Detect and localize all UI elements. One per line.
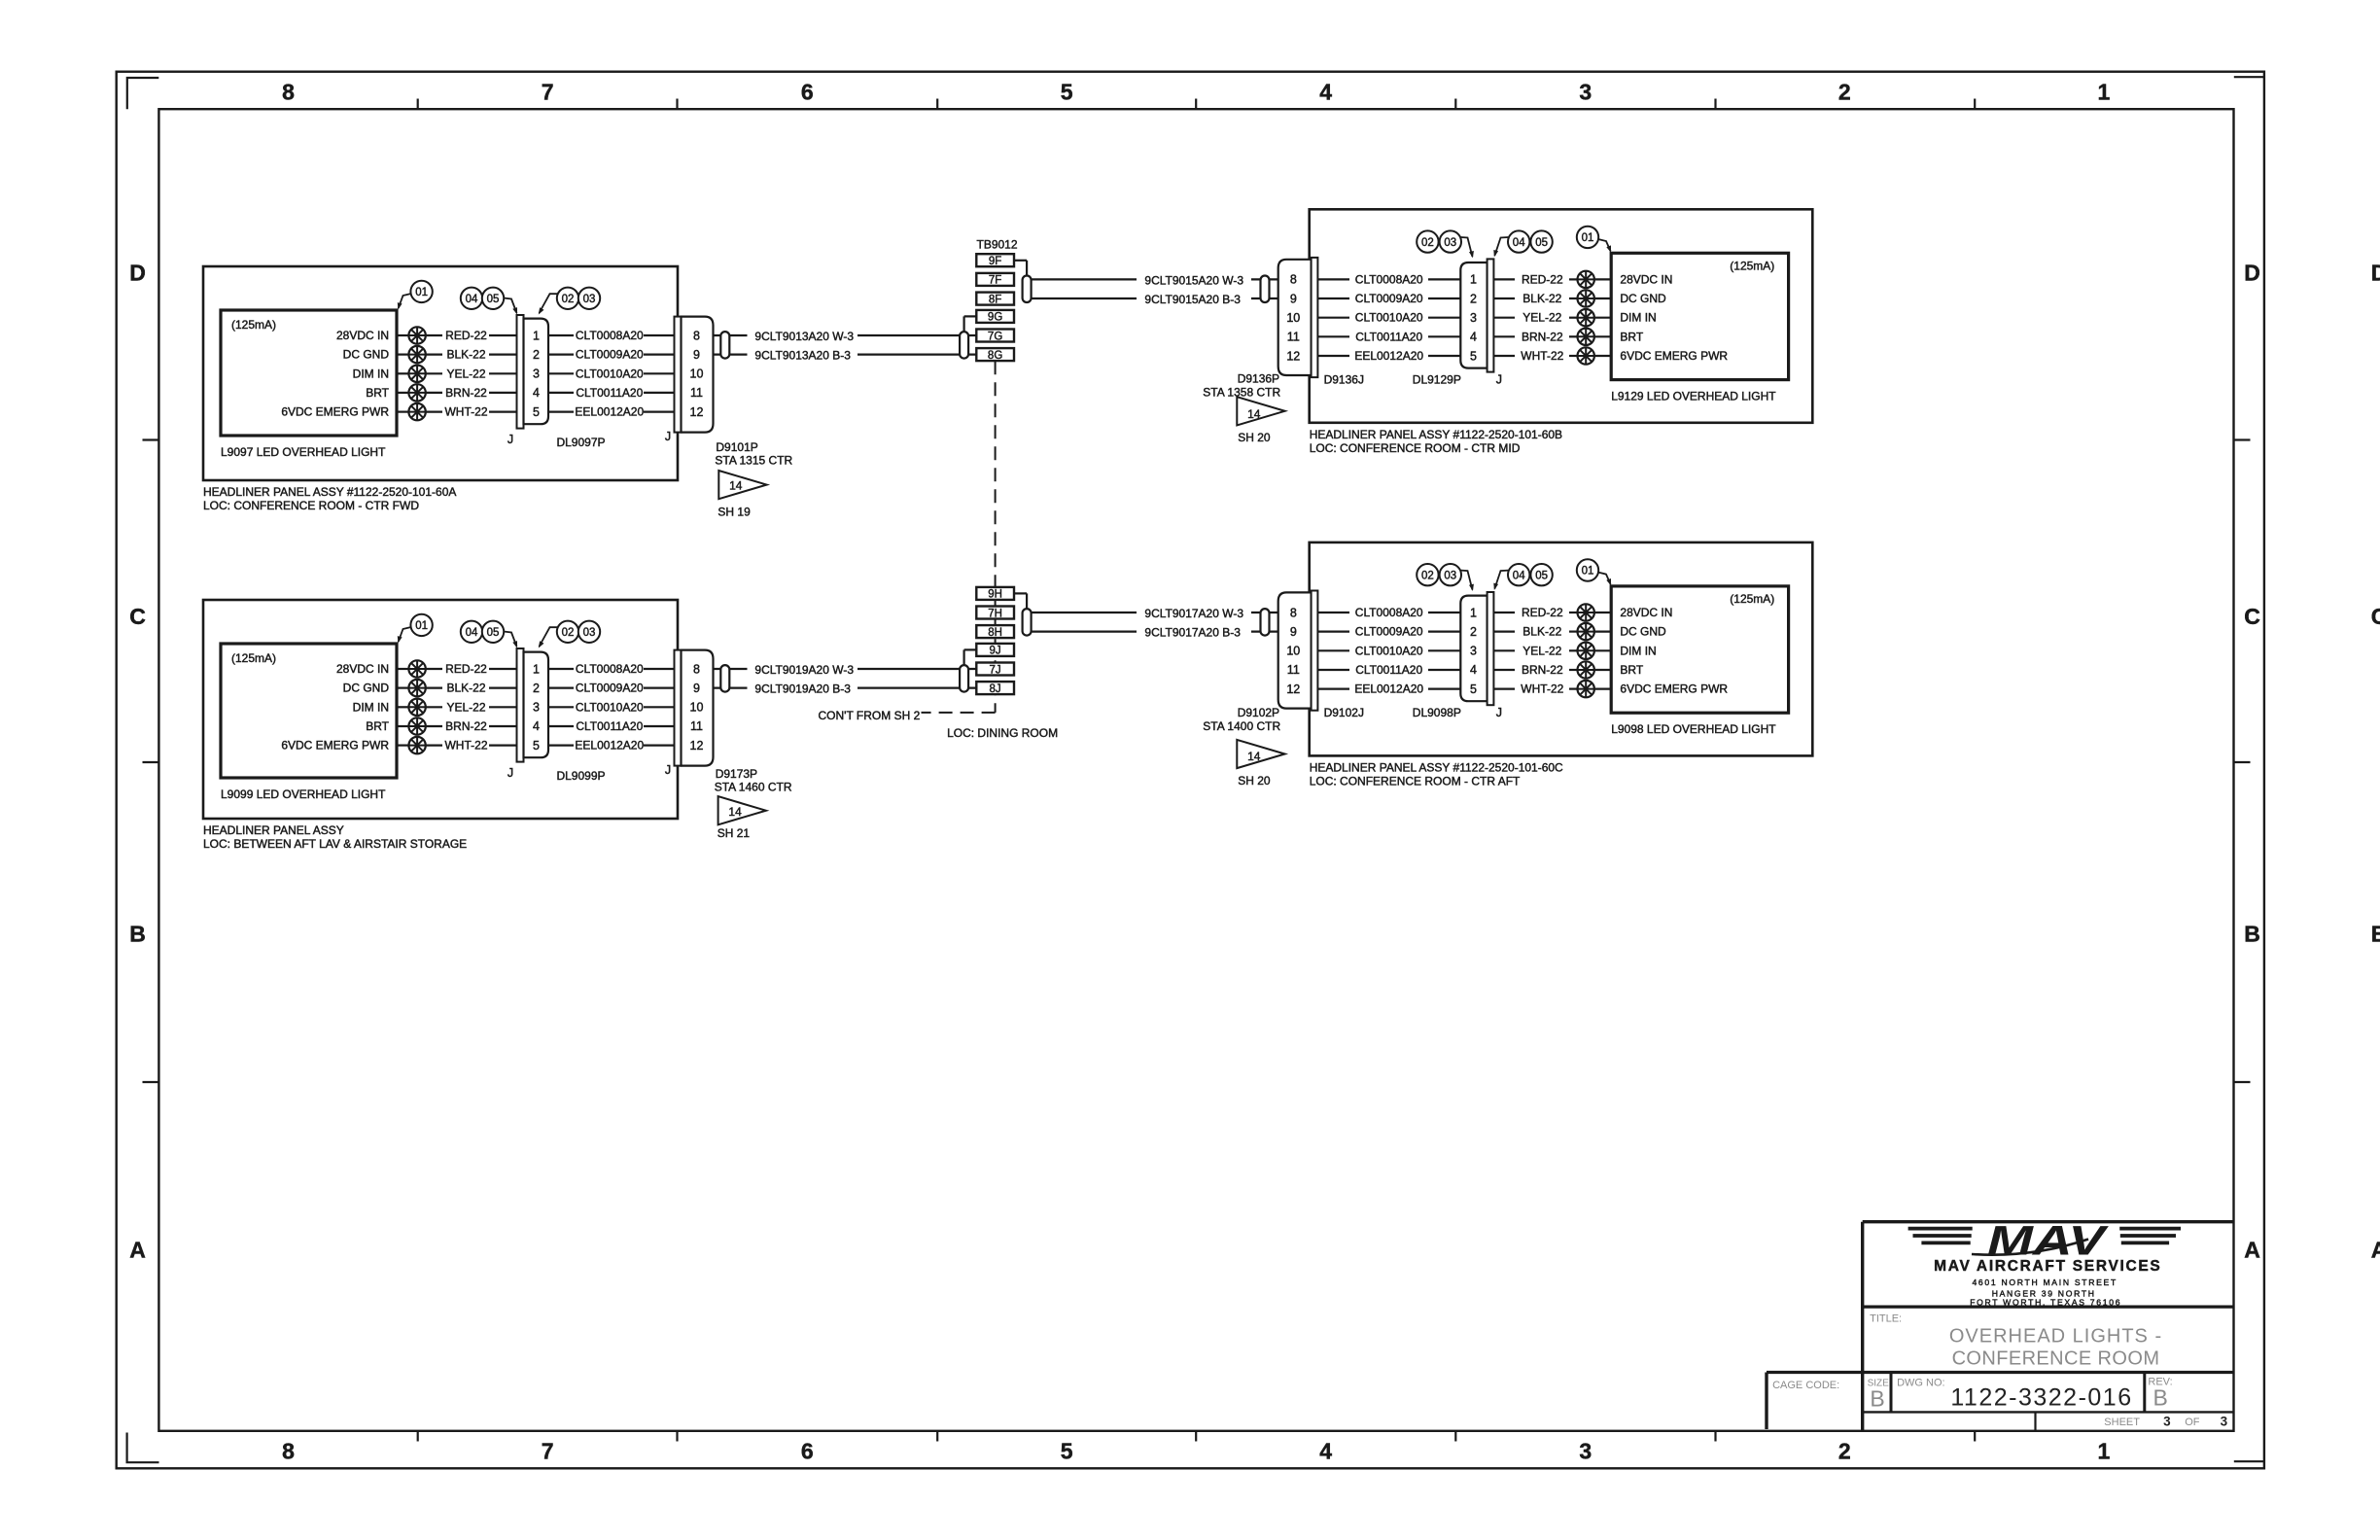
svg-text:8G: 8G — [988, 350, 1002, 362]
svg-text:9F: 9F — [989, 256, 1001, 267]
svg-text:CLT0010A20: CLT0010A20 — [1355, 311, 1423, 325]
svg-text:L9129 LED OVERHEAD LIGHT: L9129 LED OVERHEAD LIGHT — [1611, 390, 1776, 403]
svg-text:05: 05 — [487, 627, 500, 639]
svg-text:WHT-22: WHT-22 — [444, 739, 487, 752]
svg-text:CLT0011A20: CLT0011A20 — [1355, 330, 1422, 343]
svg-text:(125mA): (125mA) — [1730, 259, 1774, 272]
svg-text:EEL0012A20: EEL0012A20 — [1354, 682, 1423, 696]
svg-text:05: 05 — [1535, 237, 1548, 249]
svg-text:RED-22: RED-22 — [445, 662, 487, 676]
svg-text:8F: 8F — [989, 294, 1001, 305]
svg-text:HEADLINER PANEL ASSY: HEADLINER PANEL ASSY — [203, 823, 344, 837]
svg-text:D: D — [129, 261, 146, 286]
svg-text:7F: 7F — [989, 275, 1001, 287]
svg-text:1: 1 — [2098, 80, 2111, 105]
svg-text:D9101P: D9101P — [716, 440, 757, 454]
svg-text:LOC: CONFERENCE ROOM - CTR FWD: LOC: CONFERENCE ROOM - CTR FWD — [203, 499, 419, 512]
svg-text:9: 9 — [693, 348, 700, 362]
svg-text:14: 14 — [729, 479, 743, 493]
svg-text:05: 05 — [1535, 570, 1548, 581]
svg-text:03: 03 — [583, 294, 596, 305]
svg-text:9CLT9017A20 B-3: 9CLT9017A20 B-3 — [1144, 626, 1241, 640]
svg-text:4: 4 — [1470, 663, 1477, 677]
svg-text:STA 1358 CTR: STA 1358 CTR — [1203, 385, 1280, 399]
svg-text:02: 02 — [1421, 570, 1434, 581]
svg-text:DC GND: DC GND — [1620, 625, 1666, 639]
svg-text:HEADLINER PANEL ASSY #1122-252: HEADLINER PANEL ASSY #1122-2520-101-60A — [203, 485, 456, 499]
svg-text:BRN-22: BRN-22 — [445, 719, 487, 733]
svg-text:9: 9 — [693, 682, 700, 695]
svg-text:9: 9 — [1290, 292, 1297, 305]
svg-text:D9173P: D9173P — [716, 767, 757, 781]
svg-text:02: 02 — [562, 627, 575, 639]
svg-text:STA 1315 CTR: STA 1315 CTR — [715, 454, 792, 468]
svg-text:TB9012: TB9012 — [977, 237, 1018, 251]
svg-text:9G: 9G — [988, 312, 1002, 324]
svg-text:5: 5 — [533, 739, 540, 752]
svg-text:04: 04 — [1513, 237, 1525, 249]
svg-text:STA 1460 CTR: STA 1460 CTR — [715, 781, 792, 794]
svg-text:3: 3 — [2163, 1414, 2171, 1428]
svg-text:3: 3 — [1470, 311, 1477, 325]
svg-text:8: 8 — [693, 662, 700, 676]
svg-text:4: 4 — [1470, 331, 1477, 344]
svg-text:RED-22: RED-22 — [445, 329, 487, 342]
svg-text:5: 5 — [1061, 80, 1073, 105]
svg-text:9H: 9H — [988, 589, 1002, 601]
svg-text:3: 3 — [533, 367, 540, 381]
svg-text:C: C — [129, 604, 146, 629]
svg-text:DWG NO:: DWG NO: — [1897, 1378, 1945, 1389]
svg-text:CLT0008A20: CLT0008A20 — [576, 662, 644, 676]
svg-text:MAV AIRCRAFT SERVICES: MAV AIRCRAFT SERVICES — [1934, 1258, 2161, 1275]
svg-text:3: 3 — [1579, 1438, 1592, 1463]
svg-text:8: 8 — [1290, 273, 1297, 287]
svg-text:D: D — [2244, 261, 2260, 286]
svg-text:CLT0011A20: CLT0011A20 — [576, 719, 643, 733]
svg-text:YEL-22: YEL-22 — [446, 367, 485, 380]
svg-text:2: 2 — [1470, 625, 1477, 639]
svg-text:EEL0012A20: EEL0012A20 — [575, 739, 644, 752]
svg-text:03: 03 — [1444, 237, 1456, 249]
svg-text:L9097 LED OVERHEAD LIGHT: L9097 LED OVERHEAD LIGHT — [221, 445, 386, 459]
svg-text:4601 NORTH MAIN STREET: 4601 NORTH MAIN STREET — [1972, 1277, 2117, 1287]
svg-text:YEL-22: YEL-22 — [1522, 311, 1561, 325]
svg-text:7G: 7G — [988, 331, 1002, 342]
svg-text:CLT0008A20: CLT0008A20 — [1355, 606, 1423, 619]
svg-text:CLT0011A20: CLT0011A20 — [576, 386, 643, 400]
svg-text:J: J — [1496, 706, 1502, 719]
svg-text:8: 8 — [282, 1438, 295, 1463]
svg-text:BRN-22: BRN-22 — [1522, 330, 1563, 343]
svg-text:LOC: CONFERENCE ROOM - CTR AFT: LOC: CONFERENCE ROOM - CTR AFT — [1310, 774, 1521, 787]
svg-text:2: 2 — [533, 682, 540, 695]
svg-text:10: 10 — [690, 701, 704, 715]
svg-text:03: 03 — [583, 627, 596, 639]
svg-text:BLK-22: BLK-22 — [446, 348, 485, 362]
svg-text:CLT0008A20: CLT0008A20 — [576, 329, 644, 342]
svg-text:CONFERENCE ROOM: CONFERENCE ROOM — [1952, 1347, 2160, 1369]
svg-text:CLT0010A20: CLT0010A20 — [576, 367, 644, 380]
svg-text:J: J — [665, 430, 671, 443]
svg-text:RED-22: RED-22 — [1522, 272, 1563, 286]
svg-text:1: 1 — [1470, 273, 1477, 287]
svg-text:9CLT9015A20 W-3: 9CLT9015A20 W-3 — [1144, 273, 1243, 287]
svg-text:B: B — [2153, 1385, 2168, 1411]
svg-text:J: J — [1496, 372, 1502, 386]
svg-text:HEADLINER PANEL ASSY #1122-252: HEADLINER PANEL ASSY #1122-2520-101-60C — [1310, 760, 1563, 774]
svg-text:9: 9 — [1290, 625, 1297, 639]
svg-text:(125mA): (125mA) — [1730, 592, 1774, 606]
svg-text:9CLT9019A20 W-3: 9CLT9019A20 W-3 — [754, 663, 854, 677]
svg-text:J: J — [507, 766, 513, 780]
svg-text:11: 11 — [1287, 663, 1300, 677]
svg-text:01: 01 — [415, 287, 428, 298]
svg-text:12: 12 — [1286, 682, 1300, 696]
svg-text:BLK-22: BLK-22 — [1522, 292, 1561, 305]
svg-text:6VDC EMERG PWR: 6VDC EMERG PWR — [281, 739, 389, 752]
svg-text:1: 1 — [533, 329, 540, 342]
svg-text:04: 04 — [466, 294, 478, 305]
svg-text:04: 04 — [1513, 570, 1525, 581]
svg-text:BRT: BRT — [366, 386, 389, 400]
svg-text:OVERHEAD LIGHTS -: OVERHEAD LIGHTS - — [1949, 1326, 2162, 1347]
svg-text:LOC: DINING ROOM: LOC: DINING ROOM — [947, 726, 1058, 740]
svg-text:14: 14 — [1247, 750, 1261, 763]
svg-text:5: 5 — [1061, 1438, 1073, 1463]
svg-text:6VDC EMERG PWR: 6VDC EMERG PWR — [1620, 349, 1728, 363]
svg-text:(125mA): (125mA) — [231, 318, 276, 332]
svg-text:9CLT9015A20 B-3: 9CLT9015A20 B-3 — [1144, 293, 1241, 306]
svg-text:DIM IN: DIM IN — [353, 700, 389, 714]
svg-text:01: 01 — [1582, 566, 1594, 577]
svg-text:RED-22: RED-22 — [1522, 606, 1563, 619]
svg-text:5: 5 — [533, 405, 540, 419]
svg-text:9CLT9019A20 B-3: 9CLT9019A20 B-3 — [754, 682, 851, 696]
svg-text:12: 12 — [1286, 349, 1300, 363]
svg-text:BLK-22: BLK-22 — [446, 682, 485, 695]
svg-text:11: 11 — [1287, 331, 1300, 344]
svg-text:02: 02 — [1421, 237, 1434, 249]
svg-text:4: 4 — [1319, 1438, 1332, 1463]
svg-text:3: 3 — [1470, 645, 1477, 658]
svg-text:DC GND: DC GND — [343, 682, 390, 695]
svg-text:SHEET: SHEET — [2104, 1417, 2140, 1428]
svg-text:EEL0012A20: EEL0012A20 — [575, 405, 644, 419]
svg-text:D: D — [2371, 261, 2380, 286]
svg-text:SH 21: SH 21 — [717, 826, 751, 840]
svg-text:CAGE CODE:: CAGE CODE: — [1772, 1380, 1839, 1391]
svg-text:EEL0012A20: EEL0012A20 — [1354, 349, 1423, 363]
svg-text:7: 7 — [542, 1438, 554, 1463]
svg-text:6: 6 — [801, 80, 814, 105]
svg-text:9CLT9017A20 W-3: 9CLT9017A20 W-3 — [1144, 607, 1243, 620]
svg-text:11: 11 — [690, 719, 703, 733]
svg-text:LOC: BETWEEN AFT LAV & AIRSTAI: LOC: BETWEEN AFT LAV & AIRSTAIR STORAGE — [203, 837, 467, 851]
svg-text:9CLT9013A20 W-3: 9CLT9013A20 W-3 — [754, 330, 854, 343]
svg-text:SH 20: SH 20 — [1238, 774, 1271, 787]
svg-text:CLT0009A20: CLT0009A20 — [576, 348, 644, 362]
svg-text:1: 1 — [1470, 606, 1477, 619]
svg-text:10: 10 — [1286, 645, 1300, 658]
svg-text:7: 7 — [542, 80, 554, 105]
svg-text:6VDC EMERG PWR: 6VDC EMERG PWR — [1620, 682, 1728, 696]
svg-text:CLT0009A20: CLT0009A20 — [576, 682, 644, 695]
svg-text:04: 04 — [466, 627, 478, 639]
svg-text:WHT-22: WHT-22 — [444, 405, 487, 419]
svg-text:STA 1400 CTR: STA 1400 CTR — [1203, 719, 1280, 733]
svg-text:8J: 8J — [990, 683, 1001, 695]
svg-text:BLK-22: BLK-22 — [1522, 625, 1561, 639]
svg-text:11: 11 — [690, 386, 703, 400]
svg-text:BRN-22: BRN-22 — [1522, 663, 1563, 677]
svg-text:14: 14 — [1247, 407, 1261, 421]
svg-text:A: A — [2371, 1237, 2380, 1262]
svg-text:01: 01 — [1582, 232, 1594, 244]
svg-text:28VDC IN: 28VDC IN — [336, 662, 389, 676]
svg-text:DIM IN: DIM IN — [1620, 311, 1656, 325]
svg-text:YEL-22: YEL-22 — [446, 700, 485, 714]
svg-text:DC GND: DC GND — [1620, 292, 1666, 305]
svg-text:7J: 7J — [990, 664, 1001, 676]
svg-text:A: A — [2244, 1237, 2260, 1262]
svg-text:DL9129P: DL9129P — [1413, 372, 1461, 386]
svg-text:B: B — [129, 922, 146, 947]
svg-text:5: 5 — [1470, 349, 1477, 363]
svg-text:3: 3 — [1579, 80, 1592, 105]
svg-text:9J: 9J — [990, 646, 1001, 657]
svg-text:4: 4 — [533, 719, 540, 733]
svg-text:BRT: BRT — [1620, 330, 1643, 343]
svg-text:8: 8 — [1290, 606, 1297, 619]
svg-text:12: 12 — [690, 405, 704, 419]
svg-text:CLT0009A20: CLT0009A20 — [1355, 625, 1423, 639]
svg-text:2: 2 — [1838, 80, 1851, 105]
svg-text:9CLT9013A20 B-3: 9CLT9013A20 B-3 — [754, 349, 851, 363]
svg-text:B: B — [2244, 922, 2260, 947]
svg-text:YEL-22: YEL-22 — [1522, 644, 1561, 657]
svg-text:6VDC EMERG PWR: 6VDC EMERG PWR — [281, 405, 389, 419]
svg-text:B: B — [2371, 922, 2380, 947]
svg-text:2: 2 — [533, 348, 540, 362]
svg-text:CLT0010A20: CLT0010A20 — [576, 700, 644, 714]
svg-text:J: J — [665, 763, 671, 777]
svg-text:FORT WORTH, TEXAS 76106: FORT WORTH, TEXAS 76106 — [1970, 1298, 2121, 1308]
svg-text:B: B — [1870, 1386, 1884, 1412]
svg-text:8: 8 — [693, 329, 700, 342]
svg-text:01: 01 — [415, 620, 428, 632]
svg-text:2: 2 — [1470, 292, 1477, 305]
svg-text:28VDC IN: 28VDC IN — [1620, 272, 1672, 286]
svg-text:2: 2 — [1838, 1438, 1851, 1463]
svg-text:1122-3322-016: 1122-3322-016 — [1950, 1383, 2132, 1411]
svg-text:(125mA): (125mA) — [231, 651, 276, 665]
svg-text:D9136P: D9136P — [1238, 372, 1279, 386]
svg-text:CON'T FROM SH 2: CON'T FROM SH 2 — [819, 709, 921, 722]
svg-text:C: C — [2371, 604, 2380, 629]
svg-text:DIM IN: DIM IN — [353, 367, 389, 380]
svg-text:DIM IN: DIM IN — [1620, 644, 1656, 657]
svg-text:L9098 LED OVERHEAD LIGHT: L9098 LED OVERHEAD LIGHT — [1611, 722, 1776, 736]
svg-text:WHT-22: WHT-22 — [1521, 682, 1563, 696]
svg-text:OF: OF — [2185, 1417, 2200, 1428]
svg-text:3: 3 — [533, 701, 540, 715]
svg-text:J: J — [507, 433, 513, 446]
svg-text:DL9099P: DL9099P — [556, 769, 605, 783]
svg-text:6: 6 — [801, 1438, 814, 1463]
svg-text:SH 20: SH 20 — [1238, 431, 1271, 444]
svg-text:3: 3 — [2221, 1414, 2228, 1428]
svg-text:05: 05 — [487, 294, 500, 305]
svg-text:TITLE:: TITLE: — [1870, 1312, 1902, 1324]
svg-text:8H: 8H — [988, 627, 1002, 639]
svg-text:LOC: CONFERENCE ROOM - CTR MID: LOC: CONFERENCE ROOM - CTR MID — [1310, 441, 1521, 455]
svg-text:CLT0009A20: CLT0009A20 — [1355, 292, 1423, 305]
svg-text:28VDC IN: 28VDC IN — [1620, 606, 1672, 619]
svg-text:1: 1 — [533, 662, 540, 676]
svg-text:12: 12 — [690, 739, 704, 752]
svg-text:02: 02 — [562, 294, 575, 305]
svg-text:BRT: BRT — [366, 719, 389, 733]
svg-text:7H: 7H — [988, 608, 1002, 619]
svg-text:CLT0011A20: CLT0011A20 — [1355, 663, 1422, 677]
svg-text:C: C — [2244, 604, 2260, 629]
svg-text:1: 1 — [2098, 1438, 2111, 1463]
svg-text:L9099 LED OVERHEAD LIGHT: L9099 LED OVERHEAD LIGHT — [221, 787, 386, 801]
svg-text:CLT0010A20: CLT0010A20 — [1355, 644, 1423, 657]
svg-text:5: 5 — [1470, 682, 1477, 696]
svg-text:03: 03 — [1444, 570, 1456, 581]
svg-text:BRT: BRT — [1620, 663, 1643, 677]
svg-text:4: 4 — [1319, 80, 1332, 105]
svg-text:DL9097P: DL9097P — [556, 436, 605, 449]
svg-text:HEADLINER PANEL ASSY #1122-252: HEADLINER PANEL ASSY #1122-2520-101-60B — [1310, 428, 1562, 441]
svg-text:D9102J: D9102J — [1324, 706, 1364, 719]
svg-text:CLT0008A20: CLT0008A20 — [1355, 272, 1423, 286]
svg-text:D9102P: D9102P — [1238, 706, 1279, 719]
svg-text:BRN-22: BRN-22 — [445, 386, 487, 400]
svg-text:4: 4 — [533, 386, 540, 400]
svg-text:14: 14 — [728, 805, 742, 819]
svg-text:28VDC IN: 28VDC IN — [336, 329, 389, 342]
svg-text:DL9098P: DL9098P — [1413, 706, 1461, 719]
svg-text:WHT-22: WHT-22 — [1521, 349, 1563, 363]
svg-text:D9136J: D9136J — [1324, 372, 1364, 386]
svg-text:A: A — [129, 1237, 146, 1262]
svg-text:10: 10 — [1286, 311, 1300, 325]
svg-text:10: 10 — [690, 367, 704, 381]
svg-text:8: 8 — [282, 80, 295, 105]
svg-text:SH 19: SH 19 — [717, 506, 751, 519]
svg-text:DC GND: DC GND — [343, 348, 390, 362]
svg-text:MAV: MAV — [1987, 1217, 2109, 1264]
